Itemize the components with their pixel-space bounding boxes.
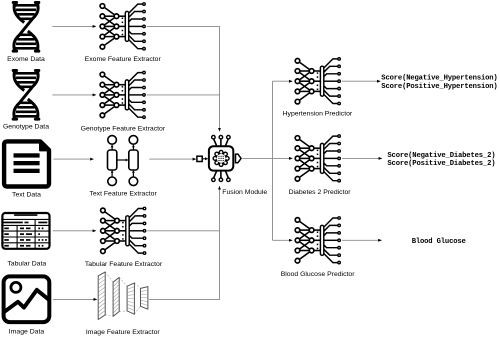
gear [213, 150, 229, 166]
text feature extractor RNN icon [108, 136, 139, 186]
hypertension predictor NN icon [295, 58, 340, 105]
svg-text:Score(Positive_Hypertension): Score(Positive_Hypertension) [381, 83, 497, 91]
svg-text:Hypertension Predictor: Hypertension Predictor [283, 111, 353, 118]
svg-text:Text Data: Text Data [12, 192, 41, 199]
svg-text:Diabetes 2 Predictor: Diabetes 2 Predictor [289, 189, 352, 196]
genotype feature extractor NN icon [100, 71, 145, 118]
wire exome data to extractor [52, 25, 96, 27]
wire text data to extractor [53, 158, 93, 160]
svg-text:Blood Glucose: Blood Glucose [412, 238, 466, 246]
svg-text:Genotype Feature Extractor: Genotype Feature Extractor [81, 125, 166, 132]
wire image extractor to bottom bus [149, 186, 219, 299]
svg-text:Tabular Feature Extractor: Tabular Feature Extractor [85, 261, 163, 268]
blood glucose predictor NN icon [295, 217, 340, 264]
svg-text:Score(Negative_Diabetes_2): Score(Negative_Diabetes_2) [387, 152, 495, 160]
image data picture icon [0, 276, 54, 322]
wire exome extractor to top bus [147, 26, 220, 131]
wire right bus to hypertension predictor [273, 80, 293, 82]
wire blood glucose predictor to output [342, 239, 382, 241]
wire tabular extractor joins bottom bus [147, 230, 219, 232]
right bus vertical [272, 81, 274, 240]
svg-text:Score(Positive_Diabetes_2): Score(Positive_Diabetes_2) [387, 160, 495, 168]
wire text extractor to fusion module [149, 158, 196, 160]
svg-text:Exome Data: Exome Data [7, 56, 45, 63]
wire hypertension predictor to score [342, 80, 380, 82]
genotype data DNA icon [13, 70, 39, 120]
wire diabetes predictor to score [342, 157, 382, 159]
wire right bus to diabetes 2 predictor [273, 157, 293, 159]
output block arrow [236, 154, 242, 163]
wire tabular data to extractor [53, 230, 96, 232]
tabular data table icon [1, 213, 50, 249]
svg-text:Text Feature Extractor: Text Feature Extractor [89, 190, 157, 197]
svg-text:Exome Feature Extractor: Exome Feature Extractor [85, 56, 162, 63]
wire genotype data to extractor [52, 94, 96, 96]
svg-text:Blood Glucose Predictor: Blood Glucose Predictor [281, 271, 356, 278]
svg-text:Genotype Data: Genotype Data [3, 123, 49, 130]
bottom pins [214, 171, 229, 178]
text data document icon [4, 141, 50, 187]
top pins [214, 139, 229, 146]
svg-text:Fusion Module: Fusion Module [222, 189, 267, 196]
image feature extractor CNN layers icon [98, 272, 148, 320]
svg-text:Score(Negative_Hypertension): Score(Negative_Hypertension) [381, 75, 497, 83]
diabetes 2 predictor NN icon [295, 135, 340, 182]
wire fusion module output to right bus [242, 157, 272, 159]
svg-text:Image Data: Image Data [9, 328, 45, 335]
wire right bus to blood glucose predictor [273, 239, 293, 241]
svg-text:Image Feature Extractor: Image Feature Extractor [86, 329, 161, 336]
wire image data to extractor [53, 298, 97, 300]
exome data DNA icon [13, 2, 39, 52]
chip body [209, 146, 233, 170]
input packet square [197, 156, 202, 161]
wire genotype extractor joins top bus [147, 94, 220, 96]
exome feature extractor NN icon [100, 3, 145, 50]
svg-text:Tabular Data: Tabular Data [7, 261, 46, 268]
tabular feature extractor NN icon [101, 207, 146, 254]
